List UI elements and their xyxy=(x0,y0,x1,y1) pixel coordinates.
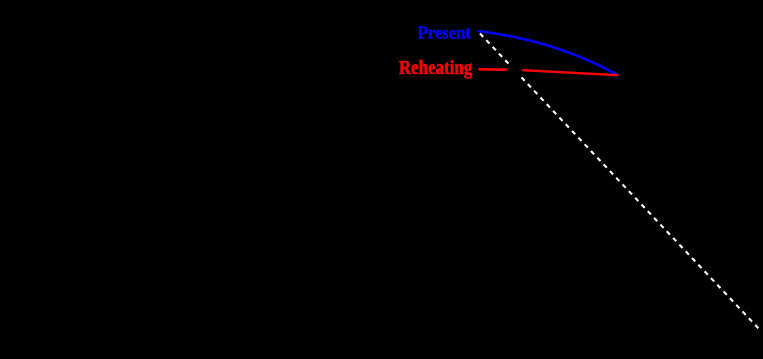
white dashed diagonal line upper segment (ends at red-line crossing) xyxy=(480,34,510,66)
line Reheating left segment xyxy=(480,68,507,71)
svg-text:Present: Present xyxy=(418,22,471,42)
svg-text:Reheating: Reheating xyxy=(399,58,473,79)
white dashed diagonal line lower segment (resumes below red-line crossing) xyxy=(522,77,761,330)
line Reheating right segment xyxy=(523,70,618,75)
curve Present (blue, concave-down from label to convergence point) xyxy=(479,31,618,75)
